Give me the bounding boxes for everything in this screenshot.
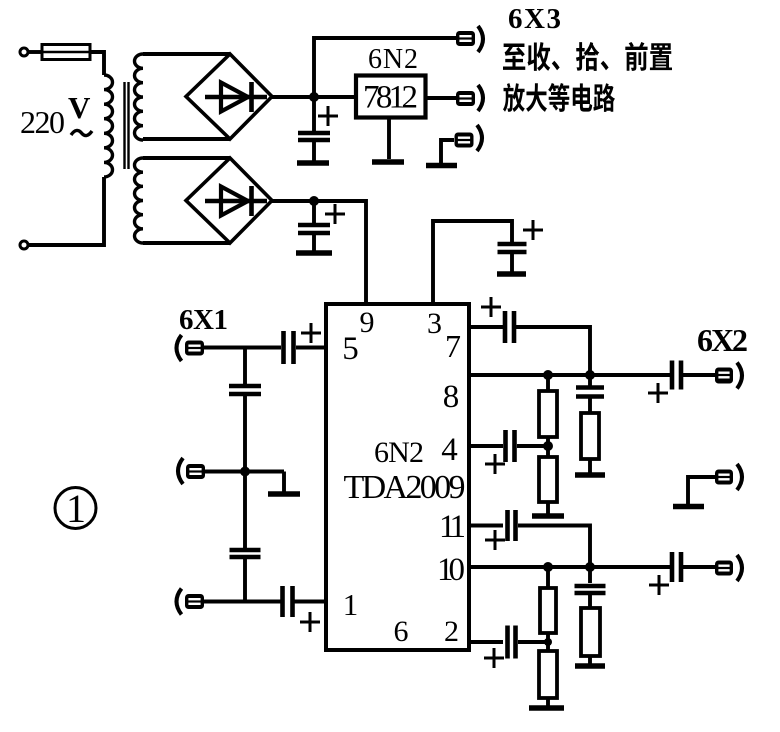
svg-text:2: 2 (444, 615, 459, 648)
node: bus junction (240, 467, 250, 477)
capacitor C1 (298, 97, 338, 161)
wire (243, 394, 247, 549)
capacitor C11 (485, 430, 515, 474)
wire (517, 444, 548, 448)
transformer secondary winding 1 (135, 54, 144, 140)
label: 至收、拾、前置 (503, 42, 672, 71)
node (543, 441, 553, 451)
wire (272, 201, 366, 305)
wire (518, 640, 548, 644)
wire (pin 8 output) (469, 373, 670, 377)
svg-text:10: 10 (437, 552, 465, 588)
resistor R4 (540, 567, 556, 643)
wire (143, 137, 230, 141)
capacitor C3 (498, 220, 544, 272)
wire (pin 10 output) (469, 565, 670, 569)
regulator U1 7812 (356, 76, 426, 118)
wire (90, 52, 104, 75)
svg-text:6: 6 (394, 615, 409, 648)
resistor R3 (zobel 1) (581, 413, 599, 473)
node (543, 562, 553, 572)
node (585, 562, 595, 572)
connector 6X2 pin c (715, 555, 742, 581)
svg-text:9: 9 (360, 306, 375, 339)
svg-text:6X1: 6X1 (179, 304, 228, 336)
svg-text:TDA2009: TDA2009 (344, 469, 466, 506)
svg-text:V: V (68, 90, 91, 125)
transformer core (125, 82, 129, 169)
resistor R2 (539, 446, 557, 514)
wire (28, 50, 42, 54)
wire (294, 600, 326, 604)
connector 6X3 pin a (456, 26, 483, 52)
node: rectifier 2 output junction (309, 196, 319, 206)
ground (6X1 pin b) (268, 472, 300, 497)
wire (input bus) (243, 348, 247, 386)
terminal: AC input bottom (20, 241, 28, 249)
wire (683, 373, 715, 377)
wire (pin 11) (469, 524, 503, 528)
svg-text:1: 1 (66, 486, 86, 531)
wire (204, 600, 281, 604)
svg-text:6X3: 6X3 (508, 3, 561, 35)
bridge rectifier D1 (186, 54, 272, 139)
ground (6X2 pin b) (673, 477, 715, 509)
capacitor C7 (230, 548, 261, 553)
wire (205, 470, 284, 474)
connector 6X2 pin a (715, 363, 742, 389)
node: rectifier 1 output junction (309, 92, 319, 102)
svg-text:3: 3 (427, 307, 442, 340)
connector 6X3 pin c (455, 125, 483, 151)
transformer secondary winding 2 (135, 158, 144, 243)
ground (6X3 pin c) (426, 140, 457, 168)
connector 6X3 pin b (456, 85, 483, 111)
wire (204, 346, 281, 350)
resistor R6 (zobel 2) (581, 608, 600, 664)
capacitor C8 (283, 586, 321, 632)
capacitor C16 (zobel 2) (575, 567, 606, 608)
capacitor C15 (484, 626, 516, 669)
wire (314, 38, 456, 97)
wire (272, 95, 356, 99)
label 220V~ (20, 90, 92, 140)
svg-text:7: 7 (445, 328, 461, 364)
svg-text:6N2: 6N2 (368, 44, 418, 75)
wire (424, 96, 456, 100)
wire (296, 346, 326, 350)
capacitor C6 (229, 384, 261, 389)
wire (28, 177, 104, 245)
wire (pin 3 supply) (433, 221, 512, 305)
node (543, 370, 553, 380)
capacitor C2 (298, 201, 345, 251)
wire (143, 52, 230, 56)
svg-text:220: 220 (20, 104, 65, 140)
wire (143, 241, 230, 245)
ground (7812) (372, 116, 404, 165)
svg-text:6X2: 6X2 (697, 322, 748, 358)
wire (pin 7) (469, 325, 503, 329)
node (585, 370, 595, 380)
wire (pin 2 feedback) (469, 640, 503, 644)
terminal: AC input top (20, 48, 28, 56)
ground (532, 513, 564, 519)
svg-text:7812: 7812 (363, 80, 418, 116)
node (544, 638, 552, 646)
transformer T1 primary winding (104, 75, 113, 177)
capacitor C13 (485, 510, 516, 550)
connector 6X2 pin b (715, 464, 742, 490)
capacitor C9 (481, 297, 514, 343)
connector 6X1 pin b (178, 458, 205, 484)
figure number 1 (55, 486, 96, 531)
fuse F1 (42, 45, 90, 60)
svg-text:4: 4 (441, 432, 458, 468)
svg-text:5: 5 (342, 331, 359, 367)
resistor R5 (539, 642, 557, 706)
svg-text:1: 1 (343, 587, 359, 622)
wire (516, 327, 590, 375)
wire (518, 526, 590, 568)
connector 6X1 pin a (177, 335, 205, 361)
svg-text:11: 11 (439, 509, 466, 545)
resistor R1 (539, 375, 557, 447)
svg-text:6N2: 6N2 (374, 436, 424, 469)
ground (575, 663, 605, 669)
capacitor C14 (649, 552, 681, 595)
ground (575, 472, 605, 478)
wire (683, 565, 715, 569)
ground (296, 250, 332, 256)
capacitor C5 (284, 323, 322, 364)
bridge rectifier D2 (186, 158, 272, 243)
wire (243, 558, 247, 601)
ground (529, 705, 564, 711)
connector 6X1 pin c (177, 589, 205, 615)
capacitor C12 (zobel 1) (576, 375, 604, 413)
wire (143, 156, 230, 160)
ground (297, 160, 329, 166)
capacitor C10 (648, 361, 681, 404)
label: 放大等电路 (503, 83, 615, 112)
wire (pin 4 feedback) (469, 444, 503, 448)
op-amp U2 TDA2009 body (326, 304, 469, 650)
svg-text:8: 8 (443, 379, 460, 415)
ground (497, 271, 526, 277)
